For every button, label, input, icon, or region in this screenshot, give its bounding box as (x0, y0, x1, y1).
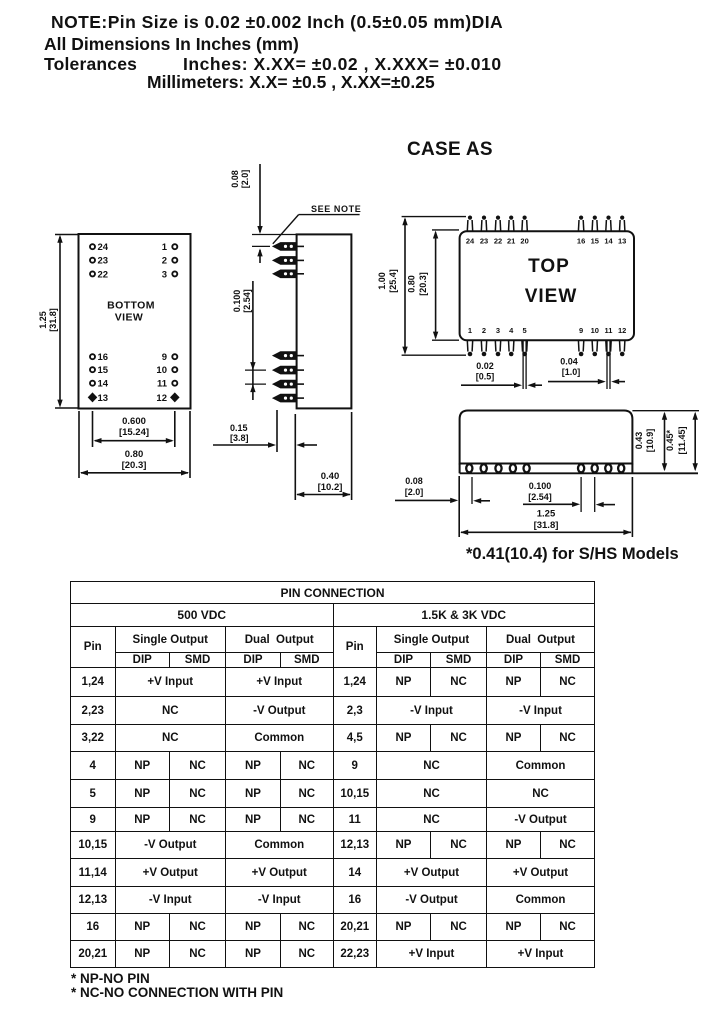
svg-text:13: 13 (98, 393, 109, 404)
svg-text:[2.54]: [2.54] (528, 492, 552, 502)
svg-text:[20.3]: [20.3] (418, 272, 428, 296)
svg-text:[3.8]: [3.8] (230, 433, 249, 443)
svg-text:[2.54]: [2.54] (242, 289, 252, 313)
svg-text:5: 5 (523, 326, 527, 335)
svg-text:0.43: 0.43 (634, 432, 644, 450)
svg-text:1.25: 1.25 (537, 509, 556, 520)
svg-text:24: 24 (466, 237, 475, 246)
svg-text:[20.3]: [20.3] (122, 460, 147, 471)
svg-text:4: 4 (509, 326, 514, 335)
svg-text:[2.0]: [2.0] (405, 487, 424, 497)
svg-text:TOP: TOP (528, 256, 570, 277)
svg-text:15: 15 (98, 365, 109, 376)
svg-text:11: 11 (605, 326, 613, 335)
svg-text:[31.8]: [31.8] (534, 520, 559, 531)
svg-text:[1.0]: [1.0] (562, 367, 581, 377)
svg-text:[0.5]: [0.5] (476, 372, 495, 382)
svg-text:[31.8]: [31.8] (48, 308, 58, 332)
svg-text:2: 2 (162, 256, 167, 267)
svg-text:0.600: 0.600 (122, 416, 146, 427)
svg-text:2: 2 (482, 326, 486, 335)
svg-text:1.25: 1.25 (38, 311, 48, 329)
svg-text:14: 14 (98, 379, 109, 390)
svg-text:16: 16 (577, 237, 585, 246)
svg-text:0.02: 0.02 (476, 361, 494, 371)
svg-text:[11.45]: [11.45] (677, 426, 687, 454)
svg-text:0.08: 0.08 (405, 476, 423, 486)
svg-text:0.80: 0.80 (125, 449, 144, 460)
svg-text:SEE NOTE: SEE NOTE (311, 204, 361, 214)
svg-text:0.15: 0.15 (230, 423, 248, 433)
svg-text:[2.0]: [2.0] (240, 170, 250, 189)
svg-text:14: 14 (604, 237, 613, 246)
svg-text:[15.24]: [15.24] (119, 427, 149, 438)
svg-text:[10.9]: [10.9] (645, 429, 655, 453)
svg-text:[25.4]: [25.4] (388, 269, 398, 293)
svg-text:11: 11 (157, 379, 168, 390)
svg-text:1: 1 (468, 326, 472, 335)
svg-text:23: 23 (98, 256, 109, 267)
svg-text:12: 12 (618, 326, 626, 335)
svg-text:0.100: 0.100 (529, 481, 552, 491)
svg-text:10: 10 (156, 365, 167, 376)
svg-text:22: 22 (98, 269, 109, 280)
svg-text:0.40: 0.40 (321, 471, 340, 482)
svg-text:3: 3 (162, 269, 167, 280)
svg-text:16: 16 (98, 352, 109, 363)
svg-text:15: 15 (591, 237, 599, 246)
svg-text:BOTTOM: BOTTOM (107, 300, 155, 312)
svg-text:[10.2]: [10.2] (318, 482, 343, 493)
svg-text:0.100: 0.100 (232, 290, 242, 313)
svg-text:VIEW: VIEW (115, 312, 143, 324)
svg-text:21: 21 (507, 237, 515, 246)
svg-text:0.80: 0.80 (407, 275, 417, 293)
svg-text:20: 20 (520, 237, 528, 246)
svg-text:9: 9 (162, 352, 167, 363)
svg-text:13: 13 (618, 237, 626, 246)
svg-text:0.08: 0.08 (230, 170, 240, 188)
svg-text:VIEW: VIEW (525, 286, 578, 307)
svg-text:10: 10 (591, 326, 599, 335)
svg-text:0.45*: 0.45* (665, 429, 675, 451)
svg-text:1: 1 (162, 242, 168, 253)
svg-text:12: 12 (156, 393, 167, 404)
svg-text:24: 24 (98, 242, 109, 253)
svg-text:3: 3 (496, 326, 500, 335)
svg-text:0.04: 0.04 (560, 357, 578, 367)
svg-text:23: 23 (480, 237, 488, 246)
svg-text:1.00: 1.00 (377, 272, 387, 290)
svg-text:22: 22 (494, 237, 502, 246)
svg-text:9: 9 (579, 326, 583, 335)
